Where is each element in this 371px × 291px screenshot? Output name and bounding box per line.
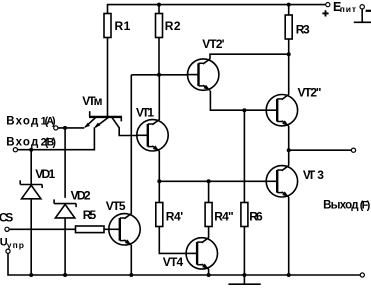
svg-text:Выход: Выход	[323, 199, 359, 211]
svg-text:3: 3	[317, 168, 324, 182]
svg-text:(F): (F)	[360, 199, 371, 211]
svg-text:R1: R1	[115, 19, 131, 33]
svg-text:R6: R6	[249, 210, 263, 224]
svg-text:VD2: VD2	[71, 189, 91, 203]
svg-text:упр: упр	[7, 240, 24, 250]
svg-text:VT2': VT2'	[202, 37, 224, 51]
svg-text:VT5: VT5	[106, 199, 126, 213]
svg-text:R2: R2	[165, 19, 181, 33]
svg-text:VD1: VD1	[35, 167, 55, 181]
svg-text:R4': R4'	[166, 210, 184, 224]
svg-text:Вход: Вход	[6, 137, 39, 149]
svg-text:VT2": VT2"	[298, 86, 322, 100]
svg-text:R5: R5	[83, 208, 97, 222]
svg-text:пит: пит	[340, 4, 356, 14]
svg-text:R4": R4"	[214, 210, 234, 224]
svg-text:1(А): 1(А)	[41, 115, 56, 127]
svg-text:VT1: VT1	[136, 106, 154, 120]
svg-text:2(В): 2(В)	[41, 137, 57, 149]
svg-text:VT: VT	[303, 168, 316, 182]
svg-text:Вход: Вход	[6, 115, 39, 127]
svg-text:VTм: VTм	[82, 94, 102, 108]
svg-text:CS: CS	[0, 211, 13, 225]
svg-text:VT4: VT4	[163, 255, 184, 269]
svg-text:R3: R3	[296, 23, 310, 37]
